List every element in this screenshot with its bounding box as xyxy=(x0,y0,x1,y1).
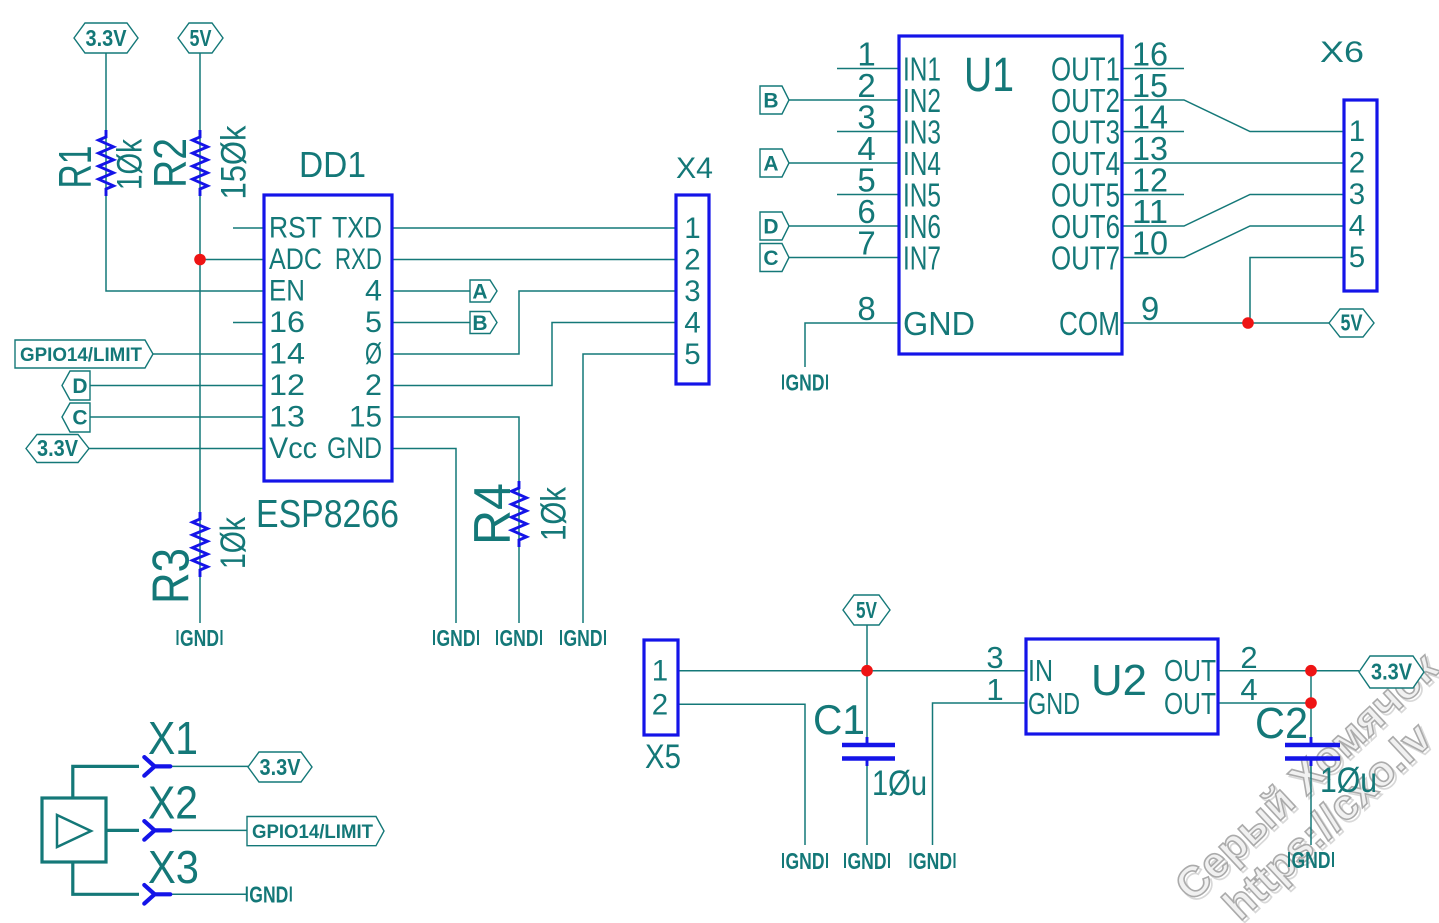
svg-text:16: 16 xyxy=(269,306,305,339)
svg-text:ADC: ADC xyxy=(269,243,322,276)
svg-text:GND: GND xyxy=(327,432,382,465)
svg-text:R3: R3 xyxy=(143,548,201,604)
svg-text:D: D xyxy=(72,375,87,398)
svg-text:15: 15 xyxy=(349,401,382,434)
svg-text:1Øk: 1Øk xyxy=(214,517,253,569)
svg-text:3: 3 xyxy=(1349,178,1365,211)
svg-text:3: 3 xyxy=(986,640,1003,675)
svg-text:C2: C2 xyxy=(1255,699,1308,748)
svg-text:TXD: TXD xyxy=(332,212,382,245)
svg-text:2: 2 xyxy=(1240,640,1257,675)
svg-text:R2: R2 xyxy=(144,138,196,188)
svg-text:R1: R1 xyxy=(49,146,101,189)
svg-text:4: 4 xyxy=(684,307,700,340)
svg-text:Ø: Ø xyxy=(365,338,382,371)
svg-text:R4: R4 xyxy=(464,483,522,545)
svg-text:1Øk: 1Øk xyxy=(535,487,574,541)
svg-text:1Øk: 1Øk xyxy=(111,139,150,190)
svg-text:1: 1 xyxy=(986,672,1003,707)
svg-text:U2: U2 xyxy=(1091,656,1147,705)
svg-text:X4: X4 xyxy=(676,152,713,185)
svg-text:5V: 5V xyxy=(190,25,213,51)
svg-text:OUT7: OUT7 xyxy=(1051,240,1120,277)
svg-text:4: 4 xyxy=(1349,210,1365,243)
svg-text:C: C xyxy=(763,247,778,270)
svg-text:X5: X5 xyxy=(645,738,681,776)
svg-text:GND: GND xyxy=(437,625,476,651)
svg-text:2: 2 xyxy=(1349,147,1365,180)
svg-text:5: 5 xyxy=(684,338,700,371)
svg-text:GND: GND xyxy=(1292,847,1331,873)
svg-text:B: B xyxy=(472,312,487,335)
svg-text:IN7: IN7 xyxy=(903,240,941,277)
svg-text:COM: COM xyxy=(1059,305,1120,342)
svg-text:2: 2 xyxy=(365,369,382,402)
svg-text:3.3V: 3.3V xyxy=(1371,659,1413,685)
svg-text:C1: C1 xyxy=(813,696,865,743)
svg-text:RXD: RXD xyxy=(335,243,382,276)
svg-text:GND: GND xyxy=(786,370,825,396)
svg-text:U1: U1 xyxy=(964,49,1014,102)
svg-text:RST: RST xyxy=(269,212,322,245)
svg-text:5V: 5V xyxy=(1341,310,1364,336)
svg-text:GND: GND xyxy=(249,882,288,908)
svg-text:B: B xyxy=(763,90,778,113)
svg-text:EN: EN xyxy=(269,275,305,308)
svg-text:9: 9 xyxy=(1141,290,1159,327)
svg-text:GND: GND xyxy=(1028,686,1080,721)
svg-text:X3: X3 xyxy=(148,841,199,893)
svg-text:ESP8266: ESP8266 xyxy=(256,493,399,536)
svg-text:A: A xyxy=(763,153,778,176)
svg-text:3: 3 xyxy=(684,275,700,308)
svg-text:OUT: OUT xyxy=(1164,653,1216,688)
svg-text:GND: GND xyxy=(564,625,603,651)
svg-text:2: 2 xyxy=(652,688,668,721)
svg-text:1: 1 xyxy=(652,655,668,688)
svg-text:GND: GND xyxy=(913,848,952,874)
svg-text:GND: GND xyxy=(786,848,825,874)
svg-text:8: 8 xyxy=(857,290,875,327)
svg-text:GPIO14/LIMIT: GPIO14/LIMIT xyxy=(252,821,373,843)
svg-text:GND: GND xyxy=(848,848,887,874)
svg-text:1Øu: 1Øu xyxy=(872,764,927,803)
svg-text:1: 1 xyxy=(1349,115,1365,148)
svg-text:GND: GND xyxy=(500,625,539,651)
svg-text:12: 12 xyxy=(269,369,305,402)
svg-text:3.3V: 3.3V xyxy=(260,754,302,780)
svg-text:1: 1 xyxy=(684,212,700,245)
svg-text:1Øu: 1Øu xyxy=(1320,761,1377,800)
svg-text:7: 7 xyxy=(857,225,875,262)
svg-text:5: 5 xyxy=(365,306,382,339)
svg-text:3.3V: 3.3V xyxy=(86,25,128,51)
svg-text:GND: GND xyxy=(903,305,975,342)
svg-text:X1: X1 xyxy=(148,712,198,764)
svg-text:X2: X2 xyxy=(148,777,198,829)
svg-text:Vcc: Vcc xyxy=(269,432,317,465)
svg-text:10: 10 xyxy=(1132,225,1168,262)
svg-text:5: 5 xyxy=(1349,241,1365,274)
svg-text:13: 13 xyxy=(269,401,305,434)
svg-text:C: C xyxy=(72,407,87,430)
svg-text:IN: IN xyxy=(1028,653,1053,688)
svg-text:5V: 5V xyxy=(856,597,877,623)
svg-text:3.3V: 3.3V xyxy=(37,435,79,461)
svg-text:D: D xyxy=(763,216,778,239)
svg-text:4: 4 xyxy=(365,275,382,308)
svg-text:DD1: DD1 xyxy=(299,144,366,185)
svg-text:GPIO14/LIMIT: GPIO14/LIMIT xyxy=(20,344,142,366)
svg-text:2: 2 xyxy=(684,244,700,277)
svg-text:15Øk: 15Øk xyxy=(215,125,254,199)
svg-text:X6: X6 xyxy=(1320,36,1364,69)
svg-text:OUT: OUT xyxy=(1164,686,1216,721)
svg-text:14: 14 xyxy=(269,338,305,371)
svg-text:A: A xyxy=(472,281,487,304)
svg-text:GND: GND xyxy=(180,625,219,651)
